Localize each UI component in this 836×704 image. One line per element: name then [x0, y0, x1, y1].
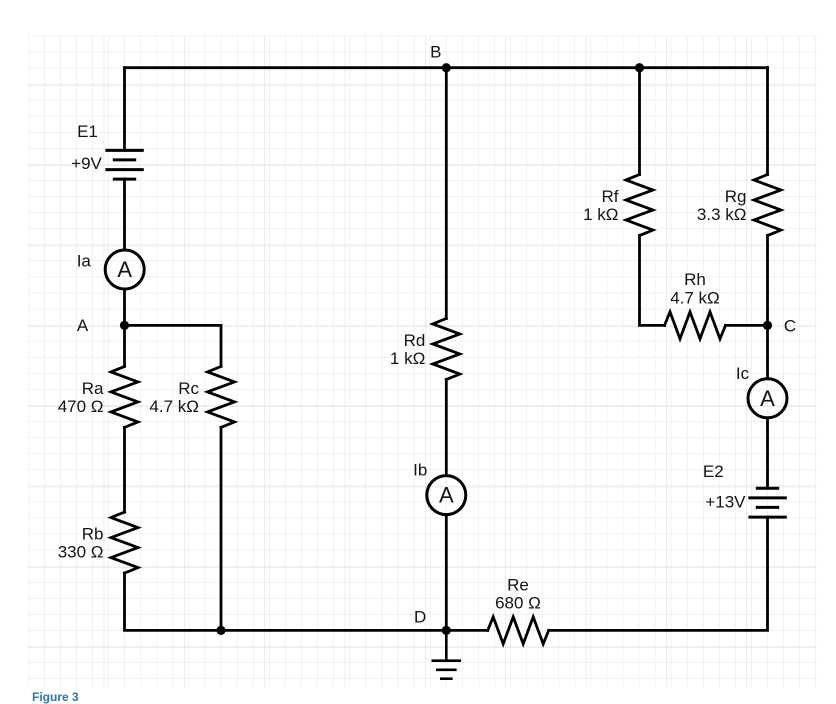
ammeter Ic circle [748, 379, 787, 418]
svg-text:B: B [430, 43, 441, 62]
wire: resistor Rc down to bottom rail junction [220, 427, 223, 630]
wire: ammeter Ic up to node C [766, 325, 769, 378]
node A junction dot [120, 321, 129, 330]
wire: top rail to resistor Rg [766, 68, 769, 175]
svg-text:Rg: Rg [725, 187, 747, 206]
svg-text:A: A [77, 316, 89, 335]
junction dot Rc branch on bottom rail [216, 626, 225, 635]
wire: resistor Rd to ammeter Ib [445, 380, 448, 476]
wire: resistor Re to bottom-right corner and up right rail [549, 517, 768, 630]
svg-text:Re: Re [507, 575, 529, 594]
wire: resistor Ra to resistor Rb [123, 427, 126, 512]
svg-text:Ia: Ia [77, 252, 92, 271]
wire: ammeter Ia to node A [123, 290, 126, 326]
svg-text:D: D [414, 608, 426, 627]
resistor Rd 1 kohm [433, 319, 460, 380]
wire: node C up to top-right corner [766, 236, 769, 326]
resistor Rf 1 kohm [626, 175, 653, 236]
svg-text:E1: E1 [77, 122, 98, 141]
wire: battery E2 up to ammeter Ic [766, 418, 769, 488]
svg-text:Ic: Ic [736, 364, 750, 383]
ground at node D [433, 630, 460, 678]
svg-text:Rb: Rb [82, 524, 104, 543]
ammeter Ib circle [427, 476, 466, 515]
svg-text:680 Ω: 680 Ω [495, 594, 541, 613]
resistor Rb 330 ohm [111, 512, 138, 573]
svg-text:A: A [760, 386, 775, 411]
svg-text:Ib: Ib [413, 460, 427, 479]
op-amp? no: ammeter Ia circle [105, 250, 144, 289]
resistor Rg 3.3 kohm [754, 175, 781, 236]
svg-text:A: A [117, 257, 132, 282]
wire: Rf junction down to resistor Rf [638, 68, 641, 175]
svg-text:1 kΩ: 1 kΩ [583, 205, 618, 224]
junction dot at Rf branch on top rail [635, 63, 644, 72]
node D junction dot [442, 626, 451, 635]
svg-text:C: C [784, 317, 796, 336]
svg-text:Ra: Ra [82, 379, 104, 398]
node C junction dot [763, 321, 772, 330]
svg-text:Rf: Rf [602, 187, 619, 206]
wire: battery E1 to ammeter Ia [123, 179, 126, 249]
svg-text:+13V: +13V [705, 493, 746, 512]
wire: node A down to resistor Ra [123, 325, 126, 366]
svg-text:470 Ω: 470 Ω [58, 397, 104, 416]
battery E2 [750, 488, 785, 517]
battery E1 [107, 150, 142, 179]
svg-text:4.7 kΩ: 4.7 kΩ [670, 288, 720, 307]
wire: top rail from left corner to right corner [125, 66, 768, 69]
node B junction dot [442, 63, 451, 72]
wire: node B down to resistor Rd [445, 68, 448, 319]
svg-text:Rd: Rd [404, 331, 426, 350]
svg-text:Rh: Rh [684, 270, 706, 289]
svg-text:Rc: Rc [178, 379, 199, 398]
resistor Ra 470 ohm [111, 366, 138, 427]
svg-text:E2: E2 [703, 462, 724, 481]
wire: resistor Rf down then right to resistor Rh [640, 236, 665, 326]
svg-text:1 kΩ: 1 kΩ [390, 349, 425, 368]
resistor Rh 4.7 kohm [665, 312, 726, 339]
svg-text:A: A [439, 483, 454, 508]
svg-text:4.7 kΩ: 4.7 kΩ [149, 397, 199, 416]
svg-text:Figure 3: Figure 3 [32, 690, 79, 704]
wire: node A to Rc branch (right then down) [125, 325, 222, 366]
wire: ammeter Ib to node D [445, 515, 448, 630]
svg-text:330 Ω: 330 Ω [58, 543, 104, 562]
wire: left branch top (corner down to battery E1) [123, 68, 126, 151]
resistor Rc 4.7 kohm [208, 366, 235, 427]
svg-text:+9V: +9V [71, 154, 102, 173]
wire: node D to resistor Re [446, 629, 487, 632]
resistor Re 680 ohm [488, 617, 549, 644]
wire: resistor Rh to node C [726, 324, 768, 327]
wire: resistor Rb to bottom-left corner and bottom rail to node D [125, 573, 447, 630]
svg-text:3.3 kΩ: 3.3 kΩ [697, 205, 747, 224]
